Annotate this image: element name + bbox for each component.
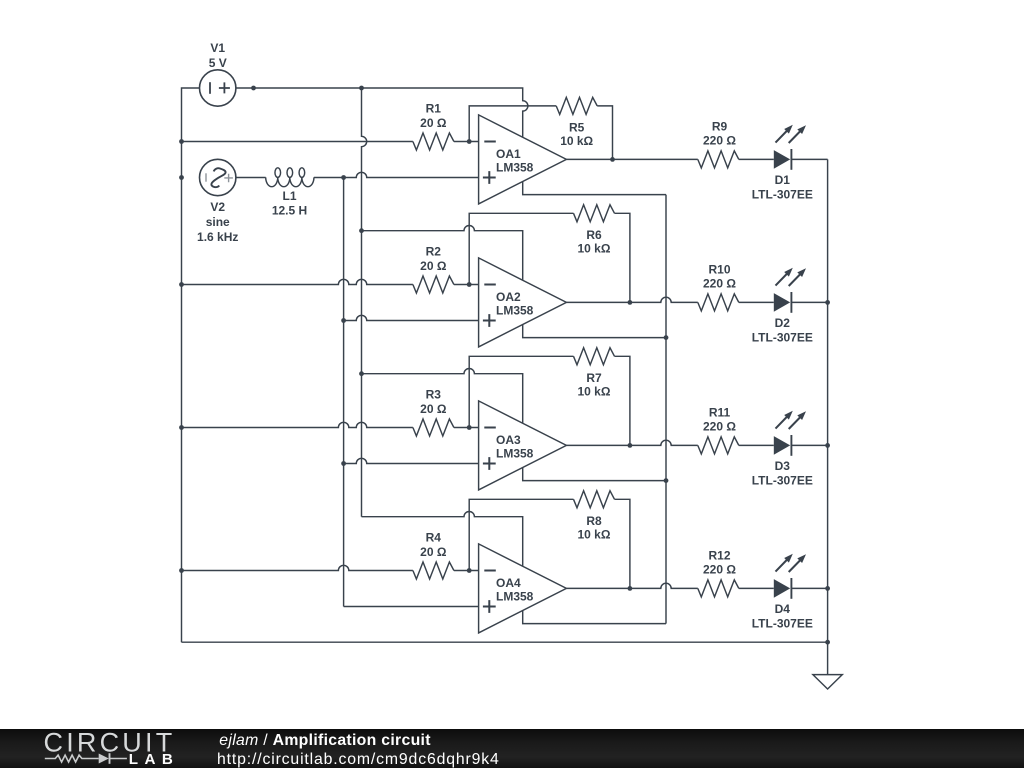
LED D4 emission arrows <box>776 554 807 572</box>
wire: feedback from OA2 inverting input up to R6 <box>469 213 573 284</box>
resistor R3 20 Ohm zigzag <box>413 419 454 436</box>
resistor R7 10 kOhm zigzag <box>574 348 615 365</box>
wire: V+ rail to OA3 top power pin (hops over feedback wire) <box>362 369 523 424</box>
junction R3 / feedback node <box>467 425 472 430</box>
junction V+ rail / OA3 feed <box>359 371 364 376</box>
value 220 &#937; (R12) <box>703 562 736 576</box>
wire: LED D1 cathode to rail <box>791 158 827 160</box>
wire: signal rail to OA2 non-inverting input <box>344 315 479 320</box>
value LM358 (OA4) <box>496 590 534 604</box>
value 10 k&#937; (R6) <box>578 242 611 256</box>
value 20 &#937; <box>420 116 447 130</box>
svg-text:10 kΩ: 10 kΩ <box>578 385 611 399</box>
svg-text:http://circuitlab.com/cm9dc6dq: http://circuitlab.com/cm9dc6dqhr9k4 <box>217 751 500 768</box>
value LTL-307EE (D4) <box>752 617 813 631</box>
wire: V1 plus terminal to OA1 top power pin (hops over feedback R5 wire) <box>236 88 528 137</box>
wire: left rail to resistor R3 <box>182 422 413 427</box>
wire: R7 to OA3 output <box>615 356 630 445</box>
LED D4 cathode bar <box>790 578 792 599</box>
svg-text:5 V: 5 V <box>209 56 227 70</box>
wire: signal rail down to OA4 plus row <box>343 178 345 607</box>
junction LED rail / D4 <box>825 586 830 591</box>
svg-text:R4: R4 <box>426 531 442 545</box>
label R3 <box>426 388 442 402</box>
svg-text:D2: D2 <box>775 316 791 330</box>
junction left rail / R3 row <box>179 425 184 430</box>
svg-text:V1: V1 <box>210 41 225 55</box>
OA3 inverting input marker <box>484 427 496 429</box>
wire: LED cathode rail (D1-D4) down to ground <box>827 159 829 642</box>
label R10 <box>708 263 730 277</box>
label R11 <box>709 406 731 420</box>
OA1 non-inverting input marker <box>483 171 496 184</box>
wire: OA3 bottom power pin to V- rail <box>523 468 666 481</box>
resistor R6 10 kOhm zigzag <box>574 205 615 222</box>
value LM358 (OA1) <box>496 161 534 175</box>
logo text CIRCUIT <box>44 728 176 758</box>
wire: OA2 output to R10 (hops over V- rail) <box>566 297 697 302</box>
V2 plus symbol <box>224 174 233 183</box>
junction left rail / R4 row <box>179 568 184 573</box>
value 220 &#937; (R9) <box>703 133 736 147</box>
value 5 V <box>209 56 227 70</box>
V1 plus symbol <box>219 82 230 93</box>
inductor L1 coil <box>266 168 314 187</box>
V2 minus bar symbol <box>205 173 207 181</box>
label D3 <box>775 459 791 473</box>
junction R1 / feedback node <box>467 139 472 144</box>
value LTL-307EE (D2) <box>752 331 813 345</box>
svg-text:10 kΩ: 10 kΩ <box>560 134 593 148</box>
logo squiggle resistor-diode <box>45 753 127 764</box>
svg-text:LTL-307EE: LTL-307EE <box>752 617 813 631</box>
wire: R2 to OA2 inverting input <box>454 284 479 286</box>
svg-text:220 Ω: 220 Ω <box>703 276 736 290</box>
label R6 <box>586 228 602 242</box>
LED D1 cathode bar <box>790 149 792 170</box>
value LM358 (OA3) <box>496 447 534 461</box>
wire: feedback from OA3 inverting input up to R7 <box>469 356 573 427</box>
junction R4 / feedback node <box>467 568 472 573</box>
label OA1 <box>496 147 521 161</box>
junction R7 / OA3 output <box>628 443 633 448</box>
wire: LED D3 cathode to rail <box>791 444 827 446</box>
svg-text:D1: D1 <box>775 173 791 187</box>
junction signal rail / OA2 plus row <box>341 318 346 323</box>
svg-text:10 kΩ: 10 kΩ <box>578 528 611 542</box>
wire: LED D2 cathode to rail <box>791 301 827 303</box>
resistor R10 220 Ohm zigzag <box>698 294 739 311</box>
svg-text:10 kΩ: 10 kΩ <box>578 242 611 256</box>
wire: signal rail to OA3 non-inverting input <box>344 458 479 463</box>
svg-text:L1: L1 <box>282 189 296 203</box>
wire: V+ rail to OA2 top power pin (hops over feedback wire) <box>362 226 523 281</box>
svg-text:20 Ω: 20 Ω <box>420 116 447 130</box>
svg-text:LAB: LAB <box>129 751 179 768</box>
svg-text:ejlam / Amplification circuit: ejlam / Amplification circuit <box>219 732 431 749</box>
LED D3 cathode bar <box>790 435 792 456</box>
svg-text:R2: R2 <box>426 245 442 259</box>
label D2 <box>775 316 791 330</box>
op-amp OA2 LM358 triangle <box>479 258 567 347</box>
LED D3 emission arrows <box>776 411 807 429</box>
OA1 inverting input marker <box>484 141 496 143</box>
svg-text:20 Ω: 20 Ω <box>420 545 447 559</box>
junction R6 / OA2 output <box>628 300 633 305</box>
op-amp OA1 LM358 triangle <box>479 115 567 204</box>
ground symbol <box>813 675 842 689</box>
svg-text:1.6 kHz: 1.6 kHz <box>197 230 238 244</box>
wire: feedback from OA1 inverting input up and over <box>469 106 556 142</box>
svg-text:R10: R10 <box>708 263 730 277</box>
label OA3 <box>496 433 521 447</box>
wire: OA4 output to R12 (hops over V- rail) <box>566 583 697 588</box>
wire: signal rail to OA4 non-inverting input <box>344 606 479 608</box>
label R4 <box>426 531 442 545</box>
svg-text:R7: R7 <box>586 371 602 385</box>
label OA2 <box>496 290 521 304</box>
junction V- rail / OA2 pin <box>664 335 669 340</box>
wire: R10 to LED D2 <box>739 301 774 303</box>
svg-text:220 Ω: 220 Ω <box>703 562 736 576</box>
label D1 <box>775 173 791 187</box>
label OA4 <box>496 576 521 590</box>
resistor R12 220 Ohm zigzag <box>698 580 739 597</box>
value 220 &#937; (R10) <box>703 276 736 290</box>
svg-text:LM358: LM358 <box>496 161 534 175</box>
svg-text:220 Ω: 220 Ω <box>703 419 736 433</box>
wire: OA1 bottom power pin to V- rail <box>523 182 666 195</box>
junction V+ rail / OA2 feed <box>359 228 364 233</box>
value 20 &#937; <box>420 259 447 273</box>
junction left rail / V2 <box>179 175 184 180</box>
svg-text:LTL-307EE: LTL-307EE <box>752 474 813 488</box>
OA2 inverting input marker <box>484 284 496 286</box>
label R2 <box>426 245 442 259</box>
resistor R1 20 Ohm zigzag <box>413 133 454 150</box>
OA2 non-inverting input marker <box>483 314 496 327</box>
resistor R5 10 kOhm zigzag <box>556 97 597 114</box>
wire: R12 to LED D4 <box>739 587 774 589</box>
wire: LED D4 cathode to rail <box>791 587 827 589</box>
LED D4 triangle <box>774 579 790 598</box>
svg-text:R12: R12 <box>708 549 730 563</box>
LED D2 emission arrows <box>776 268 807 286</box>
junction left rail / R2 row <box>179 282 184 287</box>
junction V1 wire / V+ rail <box>359 86 364 91</box>
LED D1 triangle <box>774 150 790 169</box>
svg-text:R1: R1 <box>426 102 442 116</box>
svg-text:R6: R6 <box>586 228 602 242</box>
svg-text:20 Ω: 20 Ω <box>420 402 447 416</box>
label R8 <box>586 514 602 528</box>
wire: feedback from OA4 inverting input up to R8 <box>469 499 573 570</box>
value 220 &#937; (R11) <box>703 419 736 433</box>
junction signal rail / OA3 plus row <box>341 461 346 466</box>
wire: R4 to OA4 inverting input <box>454 570 479 572</box>
value 10 k&#937; (R7) <box>578 385 611 399</box>
value LTL-307EE (D1) <box>752 188 813 202</box>
footer bar <box>0 729 1024 768</box>
footer title: ejlam / Amplification circuit <box>219 732 431 749</box>
junction V- rail / OA3 pin <box>664 478 669 483</box>
wire: R9 to LED D1 <box>739 158 774 160</box>
value LM358 (OA2) <box>496 304 534 318</box>
svg-text:12.5 H: 12.5 H <box>272 204 307 218</box>
svg-text:R5: R5 <box>569 121 585 135</box>
svg-text:20 Ω: 20 Ω <box>420 259 447 273</box>
label V2 <box>210 200 225 214</box>
label R1 <box>426 102 442 116</box>
value 20 &#937; <box>420 402 447 416</box>
voltage source V1 (5 V) circle <box>200 70 236 106</box>
resistor R8 10 kOhm zigzag <box>574 491 615 508</box>
OA3 non-inverting input marker <box>483 457 496 470</box>
wire: left rail from V1 minus terminal down to bottom wire <box>182 88 200 642</box>
label R9 <box>712 120 728 134</box>
label L1 <box>282 189 296 203</box>
svg-text:sine: sine <box>206 215 230 229</box>
wire: V- rail joining op-amp bottom pins <box>665 195 667 624</box>
V1 minus bar symbol <box>209 82 211 94</box>
junction LED rail / D2 <box>825 300 830 305</box>
wire: R6 to OA2 output <box>615 213 630 302</box>
wire: OA1 output to R9 <box>566 158 697 160</box>
wire: OA4 bottom power pin to V- rail <box>523 611 666 624</box>
wire: left rail to resistor R4 <box>182 565 413 570</box>
wire: R1 to OA1 inverting input <box>454 141 479 143</box>
label R5 <box>569 121 585 135</box>
wire: V2 plus terminal to inductor L1 <box>236 177 266 179</box>
svg-text:LM358: LM358 <box>496 590 534 604</box>
svg-text:D3: D3 <box>775 459 791 473</box>
svg-text:LTL-307EE: LTL-307EE <box>752 188 813 202</box>
V2 sine symbol <box>211 168 225 187</box>
svg-text:R3: R3 <box>426 388 442 402</box>
svg-text:OA3: OA3 <box>496 433 521 447</box>
resistor R4 20 Ohm zigzag <box>413 562 454 579</box>
value LTL-307EE (D3) <box>752 474 813 488</box>
value sine <box>206 215 230 229</box>
label R7 <box>586 371 602 385</box>
svg-text:LM358: LM358 <box>496 304 534 318</box>
wire: OA3 output to R11 (hops over V- rail) <box>566 440 697 445</box>
op-amp OA4 LM358 triangle <box>479 544 567 633</box>
svg-text:OA4: OA4 <box>496 576 521 590</box>
wire: OA2 bottom power pin to V- rail <box>523 325 666 338</box>
voltage source V2 (sine 1.6 kHz) circle <box>200 159 236 195</box>
svg-text:V2: V2 <box>210 200 225 214</box>
wire: R11 to LED D3 <box>739 444 774 446</box>
resistor R2 20 Ohm zigzag <box>413 276 454 293</box>
op-amp OA3 LM358 triangle <box>479 401 567 490</box>
LED D3 triangle <box>774 436 790 455</box>
wire: L1 to OA1 plus input (hops over V+ rail) <box>314 172 479 177</box>
label V1 <box>210 41 225 55</box>
junction R8 / OA4 output <box>628 586 633 591</box>
svg-text:OA2: OA2 <box>496 290 521 304</box>
junction bottom wire / ground rail <box>825 640 830 645</box>
svg-text:R8: R8 <box>586 514 602 528</box>
value 1.6 kHz <box>197 230 238 244</box>
resistor R9 220 Ohm zigzag <box>698 151 739 168</box>
junction L1 / signal rail <box>341 175 346 180</box>
wire: left rail to resistor R1 <box>182 141 413 143</box>
value 20 &#937; <box>420 545 447 559</box>
junction LED rail / D3 <box>825 443 830 448</box>
OA4 non-inverting input marker <box>483 600 496 613</box>
LED D1 emission arrows <box>776 125 807 143</box>
bottom wire (ground return) from left rail to ground rail <box>182 641 828 643</box>
logo text LAB <box>129 751 179 768</box>
svg-text:LTL-307EE: LTL-307EE <box>752 331 813 345</box>
wire: R5 to OA1 output <box>597 106 612 159</box>
junction on V1 wire <box>251 86 256 91</box>
svg-text:LM358: LM358 <box>496 447 534 461</box>
wire: ground stem <box>827 642 829 674</box>
OA4 inverting input marker <box>484 570 496 572</box>
label D4 <box>775 602 791 616</box>
wire: R3 to OA3 inverting input <box>454 427 479 429</box>
junction R5 / OA1 output <box>610 157 615 162</box>
svg-text:OA1: OA1 <box>496 147 521 161</box>
wire: R8 to OA4 output <box>615 499 630 588</box>
junction R2 / feedback node <box>467 282 472 287</box>
value 10 k&#937; (R8) <box>578 528 611 542</box>
svg-text:220 Ω: 220 Ω <box>703 133 736 147</box>
footer url <box>217 751 500 768</box>
junction left rail / R1 row <box>179 139 184 144</box>
LED D2 cathode bar <box>790 292 792 313</box>
LED D2 triangle <box>774 293 790 312</box>
value 12.5 H <box>272 204 307 218</box>
svg-text:R11: R11 <box>709 406 731 420</box>
value 10 k&#937; (R5) <box>560 134 593 148</box>
svg-text:D4: D4 <box>775 602 791 616</box>
wire: left rail to resistor R2 <box>182 279 413 284</box>
resistor R11 220 Ohm zigzag <box>698 437 739 454</box>
svg-text:R9: R9 <box>712 120 728 134</box>
wire: V+ rail to OA4 top power pin (hops over feedback wire) <box>362 512 523 567</box>
label R12 <box>708 549 730 563</box>
wire: V+ rail down to OA4 top feed (hops over R1 input wire) <box>362 88 367 517</box>
